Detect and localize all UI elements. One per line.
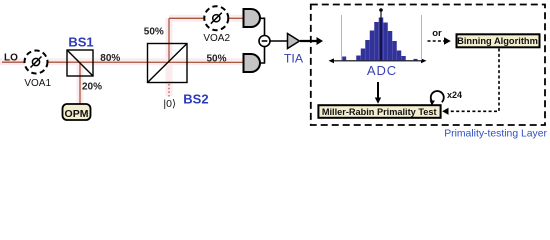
wire BS1 to OPM [79, 63, 81, 105]
svg-text:LO: LO [4, 53, 18, 64]
svg-text:BS1: BS1 [68, 34, 93, 49]
svg-text:Binning Algorithm: Binning Algorithm [457, 36, 538, 46]
optical power meter OPM [63, 104, 91, 120]
loop arrow x24 [430, 91, 444, 106]
photodetector PD1 [244, 9, 261, 27]
svg-text:20%: 20% [82, 81, 102, 92]
svg-text:x24: x24 [447, 90, 462, 100]
svg-text:VOA2: VOA2 [203, 33, 230, 44]
wire top rail to VOA2 [169, 17, 205, 19]
svg-text:Miller-Rabin Primality Test: Miller-Rabin Primality Test [322, 107, 437, 117]
svg-text:OPM: OPM [65, 108, 89, 120]
attenuator VOA1 [25, 51, 48, 74]
box Binning Algorithm [457, 34, 540, 47]
svg-text:ADC: ADC [367, 63, 397, 78]
amplifier TIA [288, 34, 300, 49]
dashed arrow or to Binning [428, 37, 451, 44]
wire vacuum input dotted [168, 84, 170, 97]
wire halo decorative [0, 18, 244, 104]
photodetector PD2 [244, 54, 261, 72]
attenuator VOA2 [204, 6, 228, 30]
histogram left bound line [341, 15, 343, 60]
svg-text:or: or [432, 28, 442, 39]
svg-text:50%: 50% [207, 53, 227, 64]
wire subtractor to TIA [270, 40, 288, 42]
beam splitter BS1 [67, 50, 93, 76]
svg-text:|0⟩: |0⟩ [163, 98, 176, 110]
arrow ADC to Miller-Rabin [375, 82, 381, 104]
histogram bars [342, 18, 417, 61]
wire PD1 to subtractor [259, 18, 265, 35]
svg-text:VOA1: VOA1 [24, 78, 51, 89]
wire VOA2 to detector PD1 [229, 17, 244, 19]
box Miller-Rabin Primality Test [318, 105, 440, 118]
svg-text:80%: 80% [100, 53, 120, 64]
ADC histogram axis [329, 58, 427, 63]
subtractor node minus [259, 36, 270, 47]
wire PD2 to subtractor [259, 47, 265, 63]
dashed box Primality-testing Layer [311, 5, 545, 126]
svg-text:50%: 50% [144, 27, 164, 38]
svg-text:BS2: BS2 [183, 91, 208, 106]
wire BS2 riser to top rail [168, 18, 170, 62]
svg-text:Primality-testing Layer: Primality-testing Layer [444, 129, 547, 140]
beam splitter BS2 [148, 44, 188, 83]
arrow TIA to ADC [300, 37, 323, 45]
histogram mean marker [379, 8, 383, 60]
svg-text:TIA: TIA [284, 52, 304, 66]
wire main beam LO to PD2 [2, 61, 244, 63]
dashed feedback Binning to Miller-Rabin [442, 49, 499, 115]
histogram right bound line [421, 15, 423, 60]
